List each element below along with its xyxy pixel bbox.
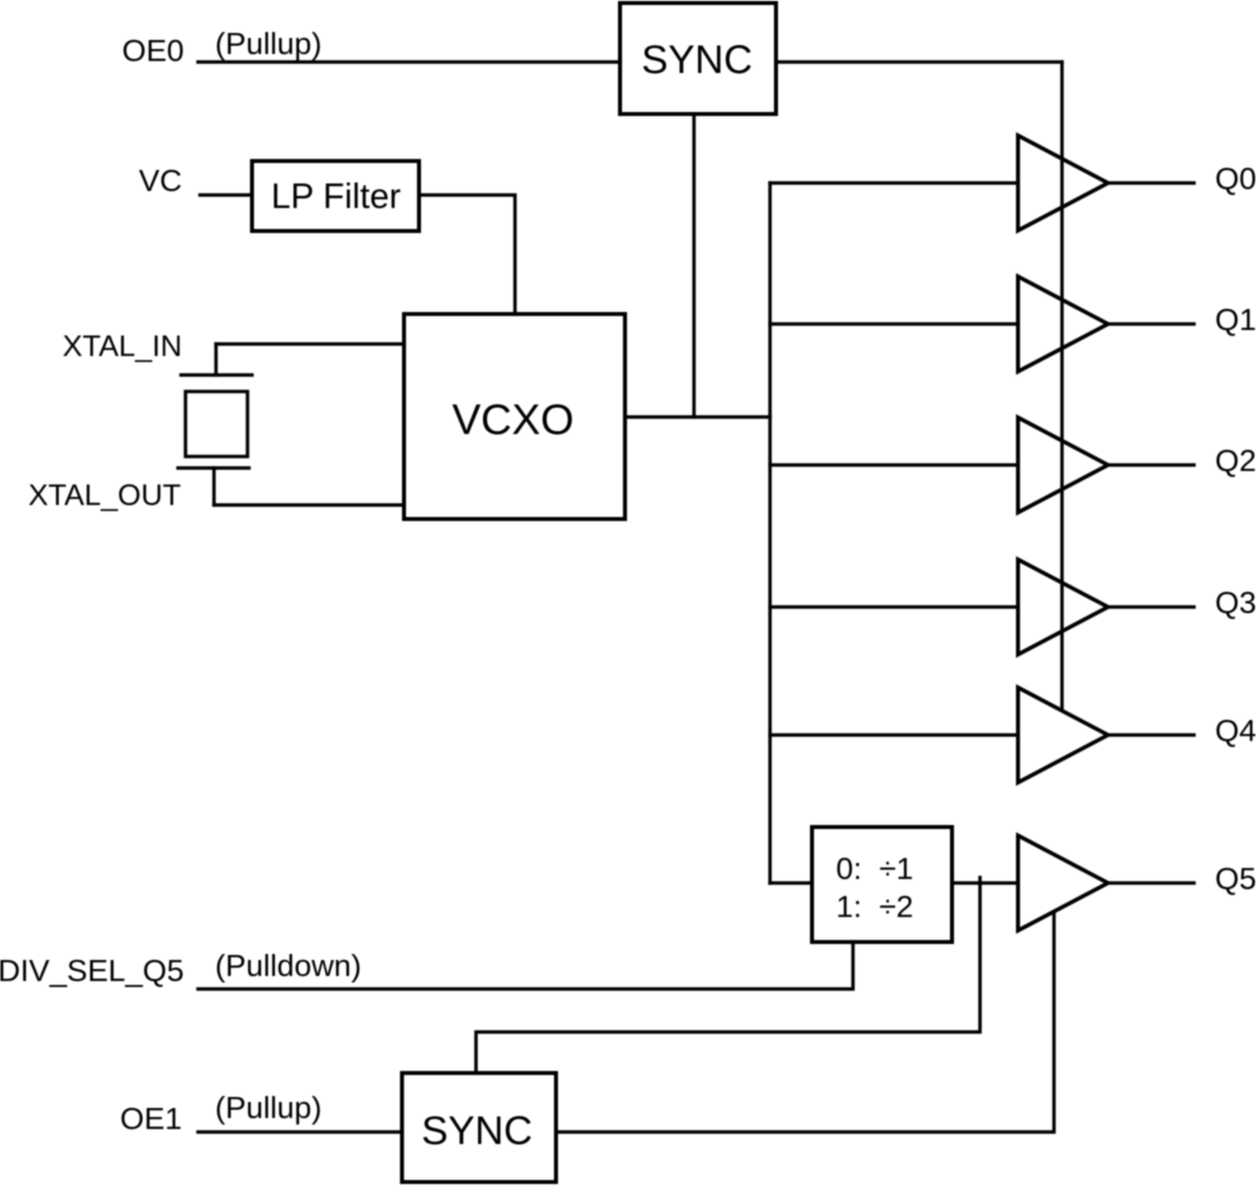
wire output Q1 [1109, 322, 1194, 325]
svg-text:SYNC: SYNC [421, 1109, 532, 1153]
wire output Q4 [1109, 733, 1194, 736]
svg-text:OE0: OE0 [122, 33, 184, 68]
wire output Q3 [1109, 605, 1194, 608]
buffer Q2 [1018, 418, 1108, 513]
wire bus to divider [770, 881, 810, 884]
wire branch to buffer Q0 [770, 181, 1018, 184]
wire branch to buffer Q4 [770, 733, 1018, 736]
wire branch to buffer Q1 [770, 322, 1018, 325]
svg-text:Q2: Q2 [1215, 443, 1256, 478]
crystal Y1 top plate [181, 373, 252, 376]
buffer Q5 [1018, 836, 1108, 931]
wire XTAL_IN to VCXO [216, 342, 402, 345]
svg-text:(Pullup): (Pullup) [215, 1090, 322, 1125]
wire VCXO output to clock bus [627, 415, 770, 418]
buffer Q3 [1018, 560, 1108, 655]
crystal Y1 bottom plate [178, 466, 249, 469]
svg-text:Q4: Q4 [1215, 713, 1256, 748]
wire junction drop from Q5 net to SYNC U2 [476, 878, 980, 1072]
svg-text:OE1: OE1 [120, 1101, 182, 1136]
wire divider to buffer Q5 [954, 881, 1018, 884]
svg-text:XTAL_IN: XTAL_IN [63, 330, 183, 363]
crystal Y1 body [186, 392, 248, 457]
wire U1 right output [778, 60, 1062, 63]
svg-text:VCXO: VCXO [452, 396, 574, 444]
svg-text:DIV_SEL_Q5: DIV_SEL_Q5 [0, 953, 184, 988]
VCXO block [404, 314, 625, 519]
wire XTAL_IN stub to crystal [214, 344, 217, 375]
svg-text:(Pulldown): (Pulldown) [215, 948, 361, 983]
buffer Q4 [1018, 688, 1108, 783]
wire OE0 to SYNC U1 [198, 60, 618, 63]
svg-text:Q3: Q3 [1215, 585, 1256, 620]
wire output Q2 [1109, 463, 1194, 466]
svg-text:Q5: Q5 [1215, 861, 1256, 896]
wire crystal to XTAL_OUT [212, 468, 215, 505]
sync block U2 [402, 1073, 556, 1182]
wire branch to buffer Q2 [770, 463, 1018, 466]
svg-text:1: ÷2: 1: ÷2 [836, 889, 913, 924]
svg-text:(Pullup): (Pullup) [215, 26, 322, 61]
wire branch to buffer Q3 [770, 605, 1018, 608]
wire U1 bottom stub to VCXO output net [692, 116, 695, 417]
divider block DIV_Q5 [812, 827, 952, 942]
svg-text:0: ÷1: 0: ÷1 [836, 851, 913, 886]
wire U1 sync line down to Q4 buffer [1060, 62, 1063, 710]
wire clock distribution bus [768, 183, 771, 883]
svg-text:Q1: Q1 [1215, 302, 1256, 337]
sync block U1 [620, 3, 776, 114]
wire DIV_SEL_Q5 to divider [198, 944, 853, 989]
svg-text:VC: VC [139, 163, 182, 198]
buffer Q0 [1018, 136, 1108, 231]
svg-text:XTAL_OUT: XTAL_OUT [28, 479, 181, 512]
wire U2 right output to Q5 buffer [558, 912, 1054, 1132]
LP filter block [252, 161, 419, 231]
wire XTAL_OUT to VCXO [214, 503, 402, 506]
svg-text:Q0: Q0 [1215, 161, 1256, 196]
buffer Q1 [1018, 277, 1108, 372]
svg-text:LP Filter: LP Filter [271, 177, 401, 216]
svg-text:SYNC: SYNC [641, 38, 752, 82]
wire LP filter to VCXO top [419, 195, 515, 312]
wire VC to LP filter [200, 193, 250, 196]
wire output Q0 [1109, 181, 1194, 184]
wire OE1 to SYNC U2 [198, 1130, 400, 1133]
wire output Q5 [1109, 881, 1194, 884]
